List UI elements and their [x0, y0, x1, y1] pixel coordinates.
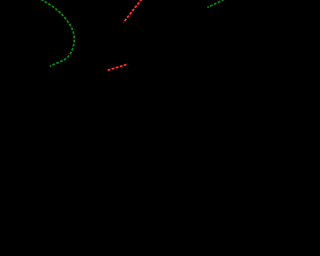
red short segment — [108, 64, 128, 70]
green short segment top right — [207, 0, 224, 8]
red line top middle — [123, 0, 141, 23]
green arc trajectory — [41, 0, 74, 66]
